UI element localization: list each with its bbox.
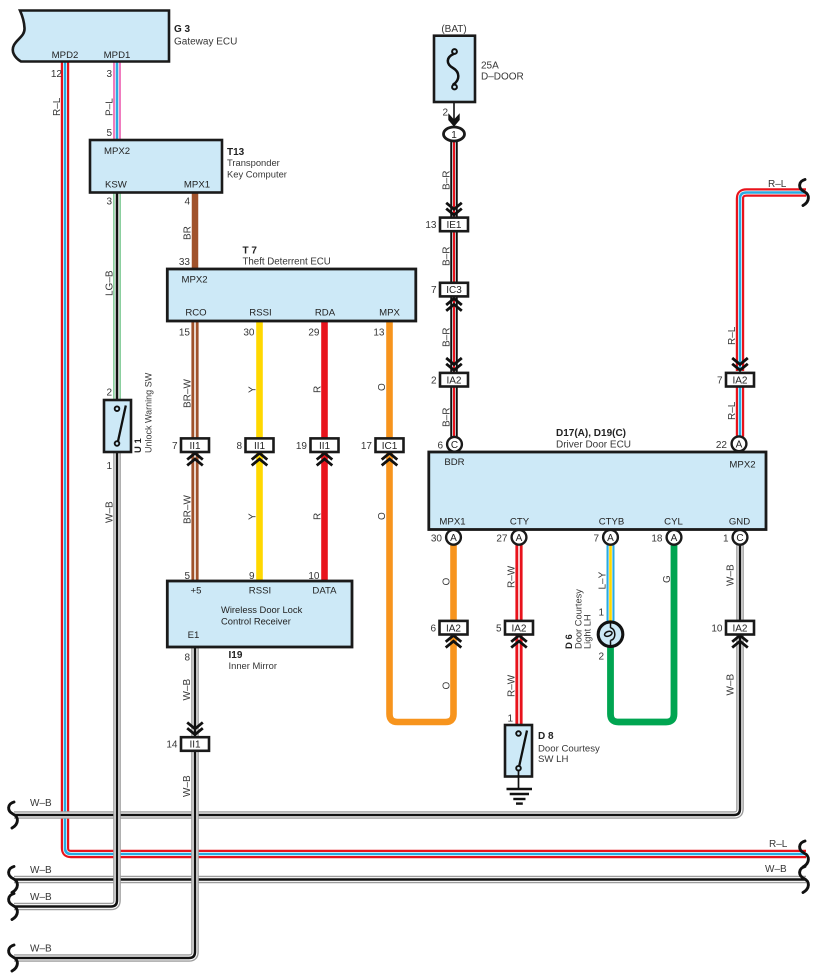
label R-L (right low): [727, 401, 738, 420]
svg-text:2: 2: [442, 108, 448, 119]
connector IA2 pin 2 (B-R): [431, 373, 468, 387]
switch U1 Unlock Warning SW box: [104, 400, 131, 452]
svg-text:2: 2: [598, 652, 604, 663]
label T13: [227, 147, 245, 158]
svg-text:O: O: [442, 682, 453, 690]
label Key Computer: [227, 168, 287, 179]
pin 2 of D6: [598, 652, 604, 663]
pin 4 of T13 MPX1: [184, 197, 190, 208]
pin 2 of U1: [106, 388, 112, 399]
wire from fuse 25A D-DOOR pin 2 to connector 1: [453, 89, 455, 127]
svg-text:29: 29: [308, 328, 320, 339]
svg-text:R–L: R–L: [52, 97, 63, 116]
svg-text:L–Y: L–Y: [598, 571, 609, 589]
wire R-W from connector IA2 pin 5 to Door Courtesy SW pin 1: [515, 634, 522, 726]
pin 6 circle C of BDR: [447, 437, 462, 452]
label Unlock Warning SW: [144, 372, 154, 453]
label R 1: [313, 386, 324, 393]
label W-B (E1 col 2): [182, 775, 193, 797]
pin 33 of T7 MPX2: [179, 257, 191, 268]
label D-DOOR: [481, 72, 524, 83]
svg-text:O: O: [377, 512, 388, 520]
svg-text:BDR: BDR: [444, 457, 464, 468]
svg-text:Y: Y: [248, 513, 259, 520]
label Driver Door ECU: [556, 440, 631, 451]
svg-text:25A: 25A: [481, 61, 499, 72]
svg-text:II1: II1: [319, 441, 331, 452]
ECU T13 Transponder Key Computer box: [90, 140, 222, 193]
svg-text:U 1: U 1: [133, 438, 144, 454]
svg-text:R: R: [313, 386, 324, 393]
svg-text:D–DOOR: D–DOOR: [481, 72, 524, 83]
label LG-B: [105, 270, 116, 296]
arrow down to connector IA2 (B-R): [446, 358, 462, 370]
svg-text:7: 7: [172, 441, 178, 452]
wire B-R from connector 1 to connector IE1 pin 13: [450, 141, 458, 217]
svg-text:2: 2: [431, 375, 437, 386]
label G 3: [174, 24, 191, 35]
label W-B (E1 col 1): [182, 679, 193, 701]
svg-text:CTYB: CTYB: [599, 517, 625, 528]
wire W-B from Driver Door ECU GND pin 1 to connector IA2 pin 10: [736, 545, 744, 623]
pin 1 circle C of GND: [733, 530, 748, 545]
label BR-W 2: [183, 495, 194, 524]
pin 7 circle A of CTYB: [603, 530, 618, 545]
svg-text:IA2: IA2: [732, 375, 747, 386]
svg-text:1: 1: [598, 608, 604, 619]
svg-text:Key Computer: Key Computer: [227, 168, 287, 179]
svg-text:30: 30: [243, 328, 255, 339]
label W-B (gnd col 1): [726, 564, 737, 586]
label B-R 1: [442, 171, 453, 190]
connector II1 pin 19: [296, 438, 339, 452]
connector IE1 pin 13: [425, 218, 468, 232]
svg-text:D17(A), D19(C): D17(A), D19(C): [556, 428, 626, 439]
svg-text:MPX2: MPX2: [104, 146, 130, 157]
wire R-L from Gateway MPD2 pin 12 to right edge: [65, 62, 806, 854]
ECU Wireless Door Lock Control Receiver box: [167, 581, 352, 647]
svg-text:MPX: MPX: [379, 308, 400, 319]
pin 2 of fuse: [442, 108, 448, 119]
svg-text:W–B: W–B: [30, 865, 52, 876]
wire O from connector IC1 pin 17 around to connector IA2 pin 6: [390, 452, 454, 723]
svg-text:W–B: W–B: [30, 892, 52, 903]
svg-text:E1: E1: [188, 630, 200, 641]
svg-text:RSSI: RSSI: [249, 308, 271, 319]
svg-text:(BAT): (BAT): [441, 24, 466, 35]
pin 5 of T13 MPX2: [106, 128, 112, 139]
pin 30 of T7 RSSI: [243, 328, 255, 339]
svg-text:4: 4: [184, 197, 190, 208]
label I19: [229, 650, 243, 661]
svg-text:MPX2: MPX2: [182, 275, 208, 286]
label Y 1: [248, 386, 259, 393]
pin 8 of receiver E1: [184, 653, 190, 664]
svg-text:22: 22: [716, 440, 728, 451]
pin 1 of U1: [106, 461, 112, 472]
label BR: [183, 226, 194, 240]
svg-text:Inner Mirror: Inner Mirror: [229, 660, 277, 671]
label R-L bottom: [769, 839, 788, 850]
label D17(A), D19(C): [556, 428, 626, 439]
svg-text:3: 3: [106, 197, 112, 208]
label Light LH: [583, 614, 593, 649]
svg-text:IA2: IA2: [732, 623, 747, 634]
svg-text:A: A: [736, 439, 743, 450]
label W-B line1: [30, 798, 52, 809]
arrow down to connector IE1: [446, 203, 462, 215]
svg-text:CYL: CYL: [664, 517, 683, 528]
label O 5: [442, 682, 453, 690]
svg-text:RCO: RCO: [185, 308, 206, 319]
connector IA2 pin 5: [496, 621, 533, 635]
svg-text:33: 33: [179, 257, 191, 268]
svg-text:SW LH: SW LH: [538, 754, 568, 765]
wire B-R from connector IC3 to connector IA2 pin 2: [450, 295, 458, 374]
svg-text:MPD1: MPD1: [104, 50, 131, 61]
label O 1: [377, 383, 388, 391]
svg-text:6: 6: [437, 440, 443, 451]
arrow up from connector II1 pin 7: [187, 453, 203, 465]
svg-text:R–W: R–W: [507, 565, 518, 588]
svg-text:O: O: [377, 383, 388, 391]
svg-text:W–B: W–B: [765, 864, 787, 875]
connector IA2 pin 7 (R-L): [717, 373, 754, 387]
svg-text:1: 1: [106, 461, 112, 472]
label Y 2: [248, 513, 259, 520]
wire W-B from Unlock Warning SW pin 1 to left edge: [14, 452, 117, 907]
connector IC3 pin 7: [431, 283, 468, 297]
label 25A: [481, 61, 499, 72]
label W-B line3 left: [30, 865, 52, 876]
label R-W 1: [507, 565, 518, 588]
svg-text:W–B: W–B: [182, 679, 193, 701]
pin 30 label: [431, 534, 443, 545]
connector II1 pin 7: [172, 438, 209, 452]
wire BR from T13 MPX1 pin 4 to T7 MPX2 pin 33: [192, 193, 199, 270]
label R 2: [313, 513, 324, 520]
svg-text:Door Courtesy: Door Courtesy: [538, 744, 600, 755]
svg-text:R–W: R–W: [507, 674, 518, 697]
svg-text:7: 7: [593, 534, 599, 545]
arrow up from connector II1 pin 19: [317, 453, 333, 465]
svg-text:MPX2: MPX2: [729, 460, 755, 471]
svg-text:2: 2: [106, 388, 112, 399]
svg-text:15: 15: [179, 328, 191, 339]
arrow down to connector IA2 (R-L): [732, 358, 748, 370]
arrow down to connector II1 pin 14: [187, 722, 203, 734]
label O 4: [442, 578, 453, 586]
pin 27 circle A of CTY: [512, 530, 527, 545]
svg-text:A: A: [450, 533, 457, 544]
harness break left of W-B shield line: [9, 867, 18, 893]
svg-text:A: A: [607, 533, 614, 544]
label B-R 4: [442, 408, 453, 427]
wire W-B from connector II1 pin 14 to left edge: [14, 752, 195, 958]
svg-text:19: 19: [296, 441, 308, 452]
connector IC1 pin 17: [361, 438, 404, 452]
switch D8 Door Courtesy SW LH box: [505, 725, 532, 777]
svg-text:5: 5: [106, 128, 112, 139]
wire O from T7 MPX pin 13 to connector IC1 pin 17: [386, 321, 393, 440]
label R-L (right top): [768, 179, 787, 190]
svg-text:GND: GND: [729, 517, 750, 528]
label W-B (U1 col): [105, 501, 116, 523]
svg-text:IA2: IA2: [446, 623, 461, 634]
svg-text:IA2: IA2: [446, 375, 461, 386]
lamp D6 Door Courtesy Light LH: [598, 622, 623, 647]
label Door Courtesy (switch): [538, 744, 600, 755]
pin 1 label: [723, 534, 729, 545]
svg-text:MPX1: MPX1: [184, 180, 210, 191]
svg-text:R: R: [313, 513, 324, 520]
label SW LH: [538, 754, 568, 765]
svg-text:14: 14: [166, 740, 178, 751]
svg-text:R–L: R–L: [727, 401, 738, 420]
svg-text:6: 6: [430, 623, 436, 634]
pin 30 circle A of MPX1: [446, 530, 461, 545]
label D 8: [538, 731, 554, 742]
wire R-L from connector IA2 pin 7 to Driver Door ECU MPX2 pin 22: [736, 386, 744, 437]
svg-text:Wireless Door Lock: Wireless Door Lock: [221, 604, 303, 615]
svg-text:MPX1: MPX1: [439, 517, 465, 528]
harness break left of W-B inner mirror line: [9, 945, 18, 971]
label B-R 3: [442, 328, 453, 347]
label R-W 2: [507, 674, 518, 697]
svg-text:W–B: W–B: [726, 564, 737, 586]
arrow up from connector IC3: [446, 299, 462, 311]
arrow up from connector II1 pin 8: [252, 453, 268, 465]
svg-text:IC1: IC1: [382, 441, 398, 452]
wire B-R from connector IE1 to connector IC3 pin 7: [450, 230, 458, 284]
svg-text:30: 30: [431, 534, 443, 545]
wire P-L from Gateway MPD1 pin 3 to T13 MPX2 pin 5: [113, 62, 121, 141]
harness break right of R-L top line: [800, 180, 809, 206]
svg-text:B–R: B–R: [442, 171, 453, 190]
svg-text:BR–W: BR–W: [183, 379, 194, 408]
connector IA2 pin 6: [430, 621, 467, 635]
label T 7: [243, 246, 258, 257]
svg-text:C: C: [451, 440, 458, 451]
ECU T7 Theft Deterrent ECU box: [167, 269, 415, 321]
svg-text:G: G: [662, 575, 673, 583]
svg-text:B–R: B–R: [442, 328, 453, 347]
svg-text:5: 5: [184, 571, 190, 582]
svg-text:B–R: B–R: [442, 247, 453, 266]
svg-text:1: 1: [451, 130, 457, 141]
harness break right of R-L bottom line: [800, 841, 809, 867]
wire W-B from receiver E1 pin 8 to connector II1 pin 14: [191, 647, 199, 739]
fuse 25A D-DOOR box: [434, 36, 475, 102]
pin 10 of receiver: [308, 571, 320, 582]
svg-text:Transponder: Transponder: [227, 157, 280, 168]
wire W-B from connector IA2 pin 10 to left edge: [14, 634, 740, 816]
svg-text:IC3: IC3: [446, 285, 462, 296]
svg-text:10: 10: [308, 571, 320, 582]
pin 9 of receiver: [249, 571, 255, 582]
wire L-Y from Driver Door ECU CTYB pin 7 to Door Courtesy Light pin 1: [607, 545, 615, 622]
svg-text:8: 8: [236, 441, 242, 452]
svg-text:O: O: [442, 578, 453, 586]
svg-text:DATA: DATA: [312, 586, 337, 597]
label G: [662, 575, 673, 583]
wire B-R from connector IA2 to Driver Door ECU BDR pin 6: [450, 386, 458, 438]
label R-L (gateway): [52, 97, 63, 116]
svg-text:RSSI: RSSI: [249, 586, 271, 597]
pin 22 label: [716, 440, 728, 451]
svg-text:13: 13: [425, 220, 437, 231]
svg-text:W–B: W–B: [182, 775, 193, 797]
svg-text:Light LH: Light LH: [583, 614, 593, 649]
label O 2: [377, 512, 388, 520]
svg-text:Control Receiver: Control Receiver: [221, 616, 291, 627]
fuse element symbol: [448, 49, 459, 89]
pin 29 of T7 RDA: [308, 328, 320, 339]
label (BAT): [441, 24, 466, 35]
wire Y from connector II1 pin 8 to receiver RSSI pin 9: [256, 452, 263, 582]
wire W-B shield from left edge to right edge: [14, 876, 806, 884]
pin 27 label: [496, 534, 508, 545]
svg-text:17: 17: [361, 441, 373, 452]
wire LG-B from T13 KSW pin 3 to Unlock Warning SW pin 2: [113, 193, 121, 400]
svg-text:P–L: P–L: [105, 98, 116, 116]
wire Y from T7 RSSI pin 30 to connector II1 pin 8: [256, 321, 263, 440]
svg-text:27: 27: [496, 534, 508, 545]
label Transponder: [227, 157, 280, 168]
harness break right of W-B shield line: [800, 867, 809, 893]
label W-B line3 right: [765, 864, 787, 875]
label Door Courtesy (lamp): [574, 589, 584, 649]
svg-text:3: 3: [106, 69, 112, 80]
pin 13 of T7 MPX: [373, 328, 385, 339]
svg-text:18: 18: [651, 534, 663, 545]
svg-text:II1: II1: [189, 740, 201, 751]
connector 1 ellipse: [444, 127, 465, 141]
wire R from T7 RDA pin 29 to connector II1 pin 19: [321, 321, 328, 440]
pin 5 of receiver: [184, 571, 190, 582]
svg-text:Driver Door ECU: Driver Door ECU: [556, 440, 631, 451]
label BR-W 1: [183, 379, 194, 408]
svg-text:CTY: CTY: [510, 517, 530, 528]
connector II1 pin 14: [166, 737, 209, 751]
label P-L: [105, 98, 116, 116]
arrow up from connector IA2 pin 10: [732, 635, 748, 647]
pin 1 of D6: [598, 608, 604, 619]
svg-text:A: A: [671, 533, 678, 544]
svg-text:B–R: B–R: [442, 408, 453, 427]
svg-text:1: 1: [507, 714, 513, 725]
svg-text:8: 8: [184, 653, 190, 664]
svg-text:BR: BR: [183, 226, 194, 240]
wire R-W from Driver Door ECU CTY pin 27 to connector IA2 pin 5: [515, 545, 522, 623]
svg-text:T 7: T 7: [243, 246, 258, 257]
arrow up from connector IA2 pin 5: [511, 635, 527, 647]
svg-text:G 3: G 3: [174, 24, 191, 35]
svg-text:MPD2: MPD2: [52, 50, 79, 61]
svg-text:7: 7: [431, 285, 437, 296]
svg-text:13: 13: [373, 328, 385, 339]
pin 6 label: [437, 440, 443, 451]
svg-text:R–L: R–L: [727, 326, 738, 345]
harness break left of W-B unlock line: [9, 894, 18, 920]
svg-text:W–B: W–B: [30, 798, 52, 809]
svg-text:D 8: D 8: [538, 731, 554, 742]
pin 7 label: [593, 534, 599, 545]
label W-B line5: [30, 944, 52, 955]
wire BR-W from T7 RCO pin 15 to connector II1 pin 7: [191, 321, 198, 440]
pin 18 circle A of CYL: [667, 530, 682, 545]
svg-text:W–B: W–B: [30, 944, 52, 955]
svg-text:7: 7: [717, 375, 723, 386]
pin 3 of T13 KSW: [106, 197, 112, 208]
label R-L (right mid): [727, 326, 738, 345]
svg-text:II1: II1: [254, 441, 266, 452]
pin 15 of T7 RCO: [179, 328, 191, 339]
ECU D17(A) D19(C) Driver Door ECU box: [429, 452, 766, 530]
svg-text:9: 9: [249, 571, 255, 582]
svg-text:10: 10: [711, 623, 723, 634]
svg-text:1: 1: [723, 534, 729, 545]
svg-text:BR–W: BR–W: [183, 495, 194, 524]
svg-text:LG–B: LG–B: [105, 270, 116, 296]
wire BR-W from connector II1 pin 7 to receiver +5 pin 5: [191, 452, 198, 582]
svg-text:IE1: IE1: [446, 220, 461, 231]
pin 18 label: [651, 534, 663, 545]
label Gateway ECU: [174, 37, 237, 48]
wire R from connector II1 pin 19 to receiver DATA pin 10: [321, 452, 328, 582]
harness break left of W-B ground line: [9, 802, 18, 828]
label Theft Deterrent ECU: [243, 257, 331, 268]
wire G from Door Courtesy Light pin 2 around to Driver Door ECU CYL pin 18: [611, 545, 675, 722]
svg-text:C: C: [736, 533, 743, 544]
svg-text:Unlock Warning SW: Unlock Warning SW: [144, 372, 154, 453]
arrow up from connector IA2 pin 6: [446, 635, 462, 647]
svg-text:+5: +5: [191, 586, 202, 597]
connector II1 pin 8: [236, 438, 273, 452]
svg-text:5: 5: [496, 623, 502, 634]
svg-text:KSW: KSW: [105, 180, 128, 191]
pin 22 circle A of MPX2: [732, 436, 747, 451]
svg-text:R–L: R–L: [768, 179, 787, 190]
svg-text:W–B: W–B: [105, 501, 116, 523]
ECU G3 Gateway ECU box: [13, 11, 169, 62]
ground symbol: [507, 770, 533, 804]
svg-text:Theft Deterrent ECU: Theft Deterrent ECU: [243, 257, 331, 268]
svg-text:A: A: [516, 533, 523, 544]
pin 1 of D8: [507, 714, 513, 725]
svg-text:RDA: RDA: [315, 308, 336, 319]
label Inner Mirror: [229, 660, 277, 671]
pin 3 of Gateway MPD1: [106, 69, 112, 80]
label D 6: [564, 634, 575, 649]
svg-text:Y: Y: [248, 386, 259, 393]
label W-B line4: [30, 892, 52, 903]
label L-Y: [598, 571, 609, 589]
wire R-L from right edge to connector IA2 pin 7: [740, 193, 806, 372]
svg-text:R–L: R–L: [769, 839, 788, 850]
label W-B (gnd col 2): [726, 674, 737, 696]
pin 12 of Gateway MPD2: [51, 69, 63, 80]
svg-text:II1: II1: [189, 441, 201, 452]
svg-text:IA2: IA2: [511, 623, 526, 634]
label B-R 2: [442, 247, 453, 266]
connector IA2 pin 10: [711, 621, 754, 635]
arrow up from connector IC1 pin 17: [382, 453, 398, 465]
svg-text:12: 12: [51, 69, 63, 80]
svg-text:W–B: W–B: [726, 674, 737, 696]
wire O from Driver Door ECU MPX1 pin 30 to connector IA2 pin 6 top: [450, 545, 457, 623]
svg-text:Gateway ECU: Gateway ECU: [174, 37, 237, 48]
